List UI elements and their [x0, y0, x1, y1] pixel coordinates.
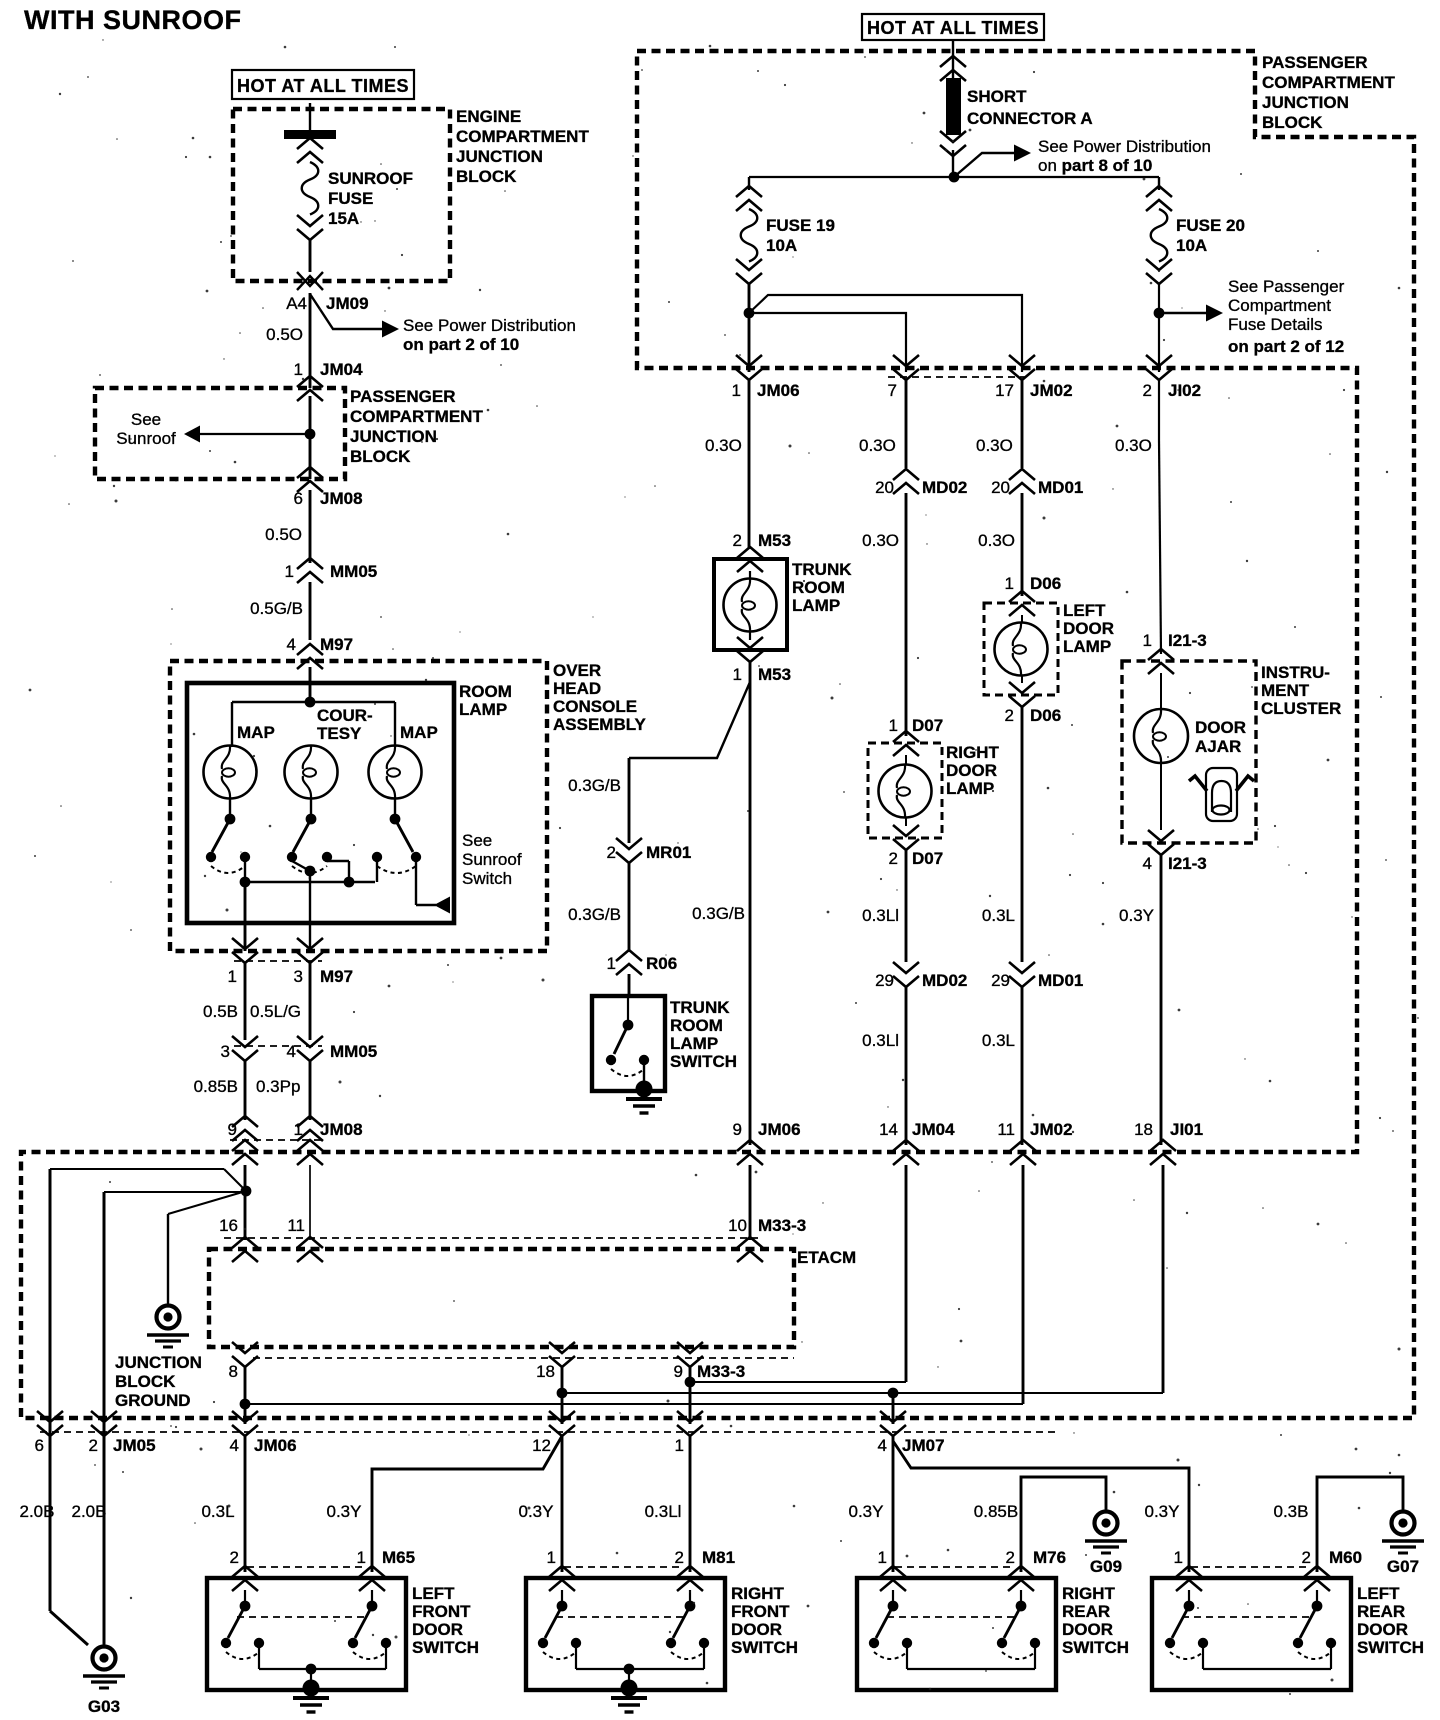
- svg-text:ASSEMBLY: ASSEMBLY: [553, 715, 647, 734]
- connector D06 pin 2: [1009, 696, 1035, 707]
- svg-text:A4: A4: [286, 294, 307, 313]
- svg-text:SWITCH: SWITCH: [1357, 1638, 1424, 1657]
- chassis ground M65: [303, 1680, 320, 1697]
- fuse 20 chevrons top: [1158, 177, 1160, 190]
- svg-text:2.0B: 2.0B: [20, 1502, 55, 1521]
- svg-text:on part 2 of 12: on part 2 of 12: [1228, 337, 1344, 356]
- svg-text:BLOCK: BLOCK: [456, 167, 517, 186]
- svg-text:9: 9: [228, 1120, 237, 1139]
- svg-text:0.3L: 0.3L: [982, 906, 1015, 925]
- svg-text:ROOM: ROOM: [670, 1016, 723, 1035]
- wire switch common M60: [1202, 1648, 1204, 1669]
- wire lamp feed bus: [232, 701, 395, 703]
- wire into room lamp: [309, 667, 312, 702]
- lamp trunk room lamp: [749, 571, 751, 578]
- svg-text:DOOR: DOOR: [1357, 1620, 1408, 1639]
- svg-text:0.3Y: 0.3Y: [1119, 906, 1154, 925]
- svg-text:BLOCK: BLOCK: [350, 447, 411, 466]
- svg-text:2: 2: [607, 843, 616, 862]
- svg-text:HOT AT ALL TIMES: HOT AT ALL TIMES: [237, 76, 409, 96]
- svg-text:D06: D06: [1030, 574, 1061, 593]
- svg-text:11: 11: [287, 1216, 305, 1235]
- svg-text:JM08: JM08: [320, 1120, 363, 1139]
- svg-text:2: 2: [1005, 706, 1014, 725]
- svg-text:0.3O: 0.3O: [976, 436, 1013, 455]
- svg-text:2: 2: [89, 1436, 98, 1455]
- wire to ETACM pin 11: [309, 1165, 311, 1240]
- svg-text:SUNROOF: SUNROOF: [328, 169, 413, 188]
- svg-text:0.3B: 0.3B: [1274, 1502, 1309, 1521]
- wire power bus: [749, 176, 1159, 178]
- svg-text:9: 9: [674, 1362, 683, 1381]
- svg-text:FUSE 20: FUSE 20: [1176, 216, 1245, 235]
- connector chevrons above sunroof fuse: [297, 138, 323, 149]
- svg-text:TRUNK: TRUNK: [670, 998, 730, 1017]
- fuse FUSE 19 10A: [741, 209, 758, 262]
- wire switch common M81: [575, 1648, 577, 1669]
- switch contacts M81: [561, 1590, 563, 1602]
- wire JM09 to JM04, 0.5O: [309, 293, 312, 388]
- lamp left door lamp: [1021, 615, 1023, 622]
- junction block exit chevrons top: [736, 369, 762, 380]
- node room lamp feed: [305, 697, 316, 708]
- svg-text:10A: 10A: [1176, 236, 1207, 255]
- svg-text:JUNCTION: JUNCTION: [350, 427, 437, 446]
- svg-text:LAMP: LAMP: [670, 1034, 718, 1053]
- svg-text:1: 1: [1005, 574, 1014, 593]
- wire M53-1 down to JM06-9, 0.3G/B: [749, 662, 752, 1145]
- svg-text:LAMP: LAMP: [792, 596, 840, 615]
- svg-text:1: 1: [732, 381, 741, 400]
- svg-text:16: 16: [219, 1216, 238, 1235]
- svg-text:See: See: [131, 410, 161, 429]
- svg-text:I21-3: I21-3: [1168, 631, 1207, 650]
- arrow See Power Distribution part 8 of 10: [954, 153, 1014, 177]
- svg-text:12: 12: [532, 1436, 551, 1455]
- svg-text:MM05: MM05: [330, 1042, 377, 1061]
- svg-text:ROOM: ROOM: [459, 682, 512, 701]
- connector MM05 pin 1: [297, 558, 323, 569]
- svg-text:1: 1: [294, 360, 303, 379]
- fuse 19 chevrons top: [748, 177, 750, 190]
- svg-text:2: 2: [675, 1548, 684, 1567]
- svg-text:DOOR: DOOR: [946, 761, 997, 780]
- connector JM0x pin 1: [677, 1425, 703, 1436]
- connector JM06 pin 4: [232, 1425, 258, 1436]
- wire JM08 to MM05, 0.5O: [309, 490, 312, 563]
- left front door switch box: [207, 1578, 406, 1690]
- engine compartment junction block box: [233, 109, 450, 281]
- svg-text:20: 20: [875, 478, 894, 497]
- wire fuse19 to JM02-17: [749, 295, 1022, 372]
- switch contacts M60: [1188, 1590, 1190, 1602]
- connector JM08 pin 6: [297, 467, 323, 478]
- svg-text:0.3Ll: 0.3Ll: [862, 906, 899, 925]
- switch contacts M76: [892, 1590, 894, 1602]
- connector JM02 pin 11: [1010, 1140, 1036, 1151]
- wire 0.3G/B to MR01: [628, 758, 631, 843]
- wire fuse20 down: [1158, 284, 1160, 372]
- arrow See Passenger Compartment Fuse Details: [1159, 312, 1206, 314]
- svg-text:1: 1: [357, 1548, 366, 1567]
- svg-text:3: 3: [221, 1042, 230, 1061]
- connector JM08 pins 9 and 1: [232, 1116, 258, 1127]
- junction block bottom connector strip: [40, 1431, 1058, 1433]
- svg-text:1: 1: [607, 954, 616, 973]
- wire D07 to MD02-29, 0.3Ll: [905, 850, 908, 962]
- connector chevrons below short connector: [940, 145, 966, 156]
- connector JM06 pin 9: [737, 1140, 763, 1151]
- connector MD01 pin 29: [1009, 976, 1035, 987]
- svg-text:DOOR: DOOR: [731, 1620, 782, 1639]
- svg-text:M76: M76: [1033, 1548, 1066, 1567]
- svg-text:D07: D07: [912, 849, 943, 868]
- svg-text:2: 2: [1302, 1548, 1311, 1567]
- wire see-sunroof arrow: [200, 433, 310, 435]
- ETACM box: [209, 1249, 794, 1347]
- svg-text:0.3Y: 0.3Y: [519, 1502, 554, 1521]
- svg-text:LAMP: LAMP: [459, 700, 507, 719]
- connector JI01 pin 18: [1150, 1140, 1176, 1151]
- label HOT AT ALL TIMES (left): [232, 70, 414, 99]
- svg-text:2: 2: [1006, 1548, 1015, 1567]
- connector D07 pin 2: [893, 839, 919, 850]
- svg-text:COMPARTMENT: COMPARTMENT: [1262, 73, 1395, 92]
- wire fuse19 to JM06-7: [749, 313, 906, 372]
- svg-text:REAR: REAR: [1357, 1602, 1405, 1621]
- connector ETACM pin 9 M33-3: [677, 1356, 703, 1367]
- wire JM06-7 to MD02-20, 0.3O: [905, 380, 908, 468]
- chassis ground M81: [621, 1680, 638, 1697]
- passenger compartment junction block box (left): [95, 388, 345, 479]
- connector ETACM pin 18: [549, 1356, 575, 1367]
- switch right map lamp: [394, 798, 396, 815]
- wire JI02-2 to I21-3, 0.3O: [1158, 380, 1160, 440]
- svg-text:JM09: JM09: [326, 294, 369, 313]
- svg-text:ETACM: ETACM: [797, 1248, 856, 1267]
- junction block entry chevrons left: [232, 1140, 258, 1151]
- trunk room lamp box: [714, 559, 787, 650]
- svg-text:JUNCTION: JUNCTION: [115, 1353, 202, 1372]
- wire to M81-1, 0.3Y: [561, 1436, 564, 1572]
- svg-text:18: 18: [536, 1362, 555, 1381]
- svg-text:18: 18: [1134, 1120, 1153, 1139]
- right door lamp box: [868, 743, 942, 838]
- svg-text:GROUND: GROUND: [115, 1391, 191, 1410]
- svg-text:I21-3: I21-3: [1168, 854, 1207, 873]
- wire JM06-4 to M65-2, 0.3L: [244, 1436, 247, 1572]
- svg-text:JM06: JM06: [758, 1120, 801, 1139]
- lamp COURTESY: [285, 746, 338, 799]
- svg-text:AJAR: AJAR: [1195, 737, 1241, 756]
- svg-text:HEAD: HEAD: [553, 679, 601, 698]
- svg-text:7: 7: [888, 381, 897, 400]
- room lamp box: [187, 683, 454, 923]
- svg-text:6: 6: [294, 489, 303, 508]
- node power bus: [949, 172, 960, 183]
- svg-text:RIGHT: RIGHT: [946, 743, 1000, 762]
- wire ETACM pin 9 down: [689, 1367, 692, 1424]
- connector M76 pins: [880, 1566, 906, 1577]
- wire room lamp common bus: [244, 861, 246, 882]
- instrument cluster box: [1122, 661, 1256, 843]
- wire MD02 to D07, 0.3O: [905, 493, 908, 736]
- svg-text:0.3G/B: 0.3G/B: [568, 905, 621, 924]
- svg-text:See: See: [462, 831, 492, 850]
- wire splice to JM05 pin 6: [224, 1169, 246, 1191]
- svg-text:Fuse Details: Fuse Details: [1228, 315, 1322, 334]
- svg-text:DOOR: DOOR: [1195, 718, 1246, 737]
- switch left map lamp: [229, 798, 231, 815]
- svg-text:0.3Pp: 0.3Pp: [256, 1077, 300, 1096]
- svg-text:1: 1: [1174, 1548, 1183, 1567]
- svg-text:CONNECTOR A: CONNECTOR A: [967, 109, 1093, 128]
- wire I21-3 to JI01-18, 0.3Y: [1160, 855, 1163, 1145]
- connector M65 pins: [232, 1566, 258, 1577]
- svg-text:4: 4: [230, 1436, 239, 1455]
- connector ETACM pin 8: [232, 1356, 258, 1367]
- svg-text:M97: M97: [320, 967, 353, 986]
- svg-text:COMPARTMENT: COMPARTMENT: [350, 407, 483, 426]
- wire to M81-2, 0.3Ll: [689, 1436, 692, 1572]
- svg-text:8: 8: [229, 1362, 238, 1381]
- svg-text:COUR-: COUR-: [317, 706, 373, 725]
- svg-text:1: 1: [878, 1548, 887, 1567]
- fuse 19 chevrons bottom: [736, 273, 762, 284]
- svg-text:M65: M65: [382, 1548, 415, 1567]
- wire 0.85B / 0.3Pp: [244, 1061, 247, 1120]
- svg-text:M33-3: M33-3: [758, 1216, 806, 1235]
- svg-text:0.3Ll: 0.3Ll: [862, 1031, 899, 1050]
- node junction block splice: [241, 1186, 252, 1197]
- connector M60 pins: [1176, 1566, 1202, 1577]
- lamp right door lamp: [905, 755, 907, 764]
- svg-text:LAMP: LAMP: [1063, 637, 1111, 656]
- node fuse20 branch: [1154, 308, 1165, 319]
- wire to ETACM pin 16: [244, 1165, 247, 1240]
- switch courtesy lamp: [310, 798, 312, 815]
- svg-text:JM06: JM06: [757, 381, 800, 400]
- connector JM04 pin 14: [893, 1140, 919, 1151]
- wire JM07-4 drop: [892, 1393, 895, 1424]
- right front door switch box: [526, 1578, 725, 1690]
- wire inside left junction block: [309, 396, 312, 479]
- svg-text:M97: M97: [320, 635, 353, 654]
- connector chevrons above short connector: [940, 56, 966, 67]
- svg-text:0.5G/B: 0.5G/B: [250, 599, 303, 618]
- svg-text:FRONT: FRONT: [412, 1602, 471, 1621]
- trunk room lamp switch box: [592, 996, 665, 1091]
- switch contacts M65: [244, 1590, 246, 1602]
- svg-text:BLOCK: BLOCK: [115, 1372, 176, 1391]
- right rear door switch box: [857, 1578, 1056, 1690]
- wire courtesy output: [292, 861, 310, 871]
- wire splice to JM05 pin 2: [104, 1191, 246, 1193]
- lamp door ajar: [1160, 673, 1162, 710]
- svg-text:OVER: OVER: [553, 661, 601, 680]
- svg-text:JI01: JI01: [1170, 1120, 1203, 1139]
- svg-text:MENT: MENT: [1261, 681, 1310, 700]
- svg-text:CLUSTER: CLUSTER: [1261, 699, 1341, 718]
- svg-text:10A: 10A: [766, 236, 797, 255]
- svg-text:29: 29: [991, 971, 1010, 990]
- wire 2.0B left: [49, 1424, 52, 1611]
- svg-text:TESY: TESY: [317, 724, 362, 743]
- svg-text:0.5O: 0.5O: [265, 525, 302, 544]
- svg-text:MD02: MD02: [922, 478, 967, 497]
- svg-text:9: 9: [733, 1120, 742, 1139]
- svg-text:2: 2: [889, 849, 898, 868]
- svg-text:SWITCH: SWITCH: [731, 1638, 798, 1657]
- svg-text:LEFT: LEFT: [412, 1584, 455, 1603]
- svg-text:0.5O: 0.5O: [266, 325, 303, 344]
- svg-text:0.5B: 0.5B: [203, 1002, 238, 1021]
- svg-text:0.85B: 0.85B: [194, 1077, 238, 1096]
- connector MR01 pin 2: [616, 852, 642, 863]
- left door lamp box: [984, 603, 1058, 695]
- lamp MAP left: [204, 746, 257, 799]
- wire M76-2 to G09, 0.85B: [1021, 1477, 1106, 1572]
- wire ETACM pin 18 down: [561, 1367, 564, 1424]
- switch trunk room lamp switch: [627, 996, 629, 1021]
- svg-text:0.3Y: 0.3Y: [327, 1502, 362, 1521]
- svg-text:JM04: JM04: [320, 360, 363, 379]
- svg-text:MD02: MD02: [922, 971, 967, 990]
- connector R06 pin 1: [616, 950, 642, 961]
- wire JM07-4 split, 0.3Y: [892, 1436, 895, 1572]
- svg-text:0.3O: 0.3O: [978, 531, 1015, 550]
- svg-text:TRUNK: TRUNK: [792, 560, 852, 579]
- svg-text:3: 3: [294, 967, 303, 986]
- svg-text:Sunroof: Sunroof: [462, 850, 522, 869]
- connector JM09 pin A4 interlock: [297, 276, 323, 290]
- svg-text:Compartment: Compartment: [1228, 296, 1331, 315]
- svg-text:M81: M81: [702, 1548, 735, 1567]
- svg-text:MD01: MD01: [1038, 478, 1083, 497]
- svg-text:JM05: JM05: [113, 1436, 156, 1455]
- left rear door switch box: [1152, 1578, 1351, 1690]
- wire JM02-17 to MD01-20, 0.3O: [1021, 380, 1024, 468]
- svg-text:ROOM: ROOM: [792, 578, 845, 597]
- svg-text:MD01: MD01: [1038, 971, 1083, 990]
- fuse FUSE 20 10A: [1151, 209, 1168, 262]
- ETACM bottom connector strip: [253, 1357, 794, 1359]
- svg-text:0.3O: 0.3O: [1115, 436, 1152, 455]
- ground G07: [1392, 1512, 1415, 1535]
- connector chevrons below sunroof fuse: [297, 229, 323, 240]
- connector MD02 pin 20: [893, 469, 919, 480]
- wire splice to junction block ground: [168, 1191, 246, 1214]
- svg-text:1: 1: [294, 1120, 303, 1139]
- svg-text:0.3Y: 0.3Y: [849, 1502, 884, 1521]
- svg-text:Switch: Switch: [462, 869, 512, 888]
- wire fuse19 down: [748, 284, 751, 372]
- svg-text:17: 17: [995, 381, 1014, 400]
- svg-text:0.3O: 0.3O: [705, 436, 742, 455]
- fusible link bar: [284, 130, 336, 139]
- trunk switch chassis ground: [636, 1081, 653, 1098]
- svg-text:2.0B: 2.0B: [72, 1502, 107, 1521]
- wire JM07-4 to M60-1: [893, 1441, 1189, 1572]
- svg-text:RIGHT: RIGHT: [731, 1584, 785, 1603]
- svg-text:1: 1: [285, 562, 294, 581]
- svg-text:FUSE: FUSE: [328, 189, 373, 208]
- wire MM05 to M97, 0.5G/B: [309, 582, 312, 640]
- svg-text:D06: D06: [1030, 706, 1061, 725]
- wire R06 to switch: [628, 974, 631, 996]
- svg-text:INSTRU-: INSTRU-: [1261, 663, 1330, 682]
- svg-text:JUNCTION: JUNCTION: [1262, 93, 1349, 112]
- connector I21-3 pin 4: [1148, 844, 1174, 855]
- svg-text:1: 1: [889, 716, 898, 735]
- svg-text:DOOR: DOOR: [1062, 1620, 1113, 1639]
- svg-text:JM08: JM08: [320, 489, 363, 508]
- svg-text:DOOR: DOOR: [1063, 619, 1114, 638]
- svg-text:See Passenger: See Passenger: [1228, 277, 1345, 296]
- svg-text:0.3L: 0.3L: [982, 1031, 1015, 1050]
- svg-text:0.3G/B: 0.3G/B: [568, 776, 621, 795]
- connector MD02 pin 29: [893, 976, 919, 987]
- connector MM05 pins 3 and 4: [232, 1050, 258, 1061]
- svg-text:0.3O: 0.3O: [859, 436, 896, 455]
- node fuse19 branch: [744, 308, 755, 319]
- wire pin18 to JI01-18 bus: [562, 1392, 1163, 1394]
- svg-text:1: 1: [547, 1548, 556, 1567]
- ground G03: [93, 1647, 116, 1670]
- wire branch to trunk lamp switch: [629, 682, 750, 758]
- fuse SUNROOF FUSE 15A: [302, 162, 319, 215]
- icon car with doors open: [1189, 768, 1254, 821]
- wire JM06-1 to M53-2: [748, 380, 751, 549]
- connector MD01 pin 20: [1009, 469, 1035, 480]
- wire switch common M76: [906, 1648, 908, 1669]
- svg-text:COMPARTMENT: COMPARTMENT: [456, 127, 589, 146]
- connector M97 pins 1 and 3: [232, 952, 258, 963]
- svg-text:15A: 15A: [328, 209, 359, 228]
- svg-text:MM05: MM05: [330, 562, 377, 581]
- svg-text:M33-3: M33-3: [697, 1362, 745, 1381]
- svg-text:0.3Ll: 0.3Ll: [645, 1502, 682, 1521]
- svg-text:Sunroof: Sunroof: [116, 429, 176, 448]
- svg-text:See Power Distribution: See Power Distribution: [403, 316, 576, 335]
- svg-text:WITH SUNROOF: WITH SUNROOF: [24, 5, 241, 35]
- svg-text:JM07: JM07: [902, 1436, 945, 1455]
- svg-text:R06: R06: [646, 954, 677, 973]
- svg-text:LAMP: LAMP: [946, 779, 994, 798]
- svg-text:D07: D07: [912, 716, 943, 735]
- wire into short connector: [952, 40, 954, 80]
- svg-text:See Power Distribution: See Power Distribution: [1038, 137, 1211, 156]
- short connector A bar: [946, 78, 961, 135]
- svg-text:G03: G03: [88, 1697, 120, 1716]
- svg-text:1: 1: [1143, 631, 1152, 650]
- svg-text:SHORT: SHORT: [967, 87, 1027, 106]
- svg-text:BLOCK: BLOCK: [1262, 113, 1323, 132]
- svg-text:CONSOLE: CONSOLE: [553, 697, 637, 716]
- svg-text:on part 2 of 10: on part 2 of 10: [403, 335, 519, 354]
- svg-text:29: 29: [875, 971, 894, 990]
- svg-text:SWITCH: SWITCH: [1062, 1638, 1129, 1657]
- svg-text:G07: G07: [1387, 1557, 1419, 1576]
- svg-text:20: 20: [991, 478, 1010, 497]
- svg-text:on part 8 of 10: on part 8 of 10: [1038, 156, 1152, 175]
- svg-text:JI02: JI02: [1168, 381, 1201, 400]
- fuse 20 chevrons bottom: [1146, 273, 1172, 284]
- svg-text:SWITCH: SWITCH: [412, 1638, 479, 1657]
- svg-text:REAR: REAR: [1062, 1602, 1110, 1621]
- wire see sunroof switch: [415, 861, 417, 905]
- wire M60-2 to G07, 0.3B: [1317, 1477, 1403, 1572]
